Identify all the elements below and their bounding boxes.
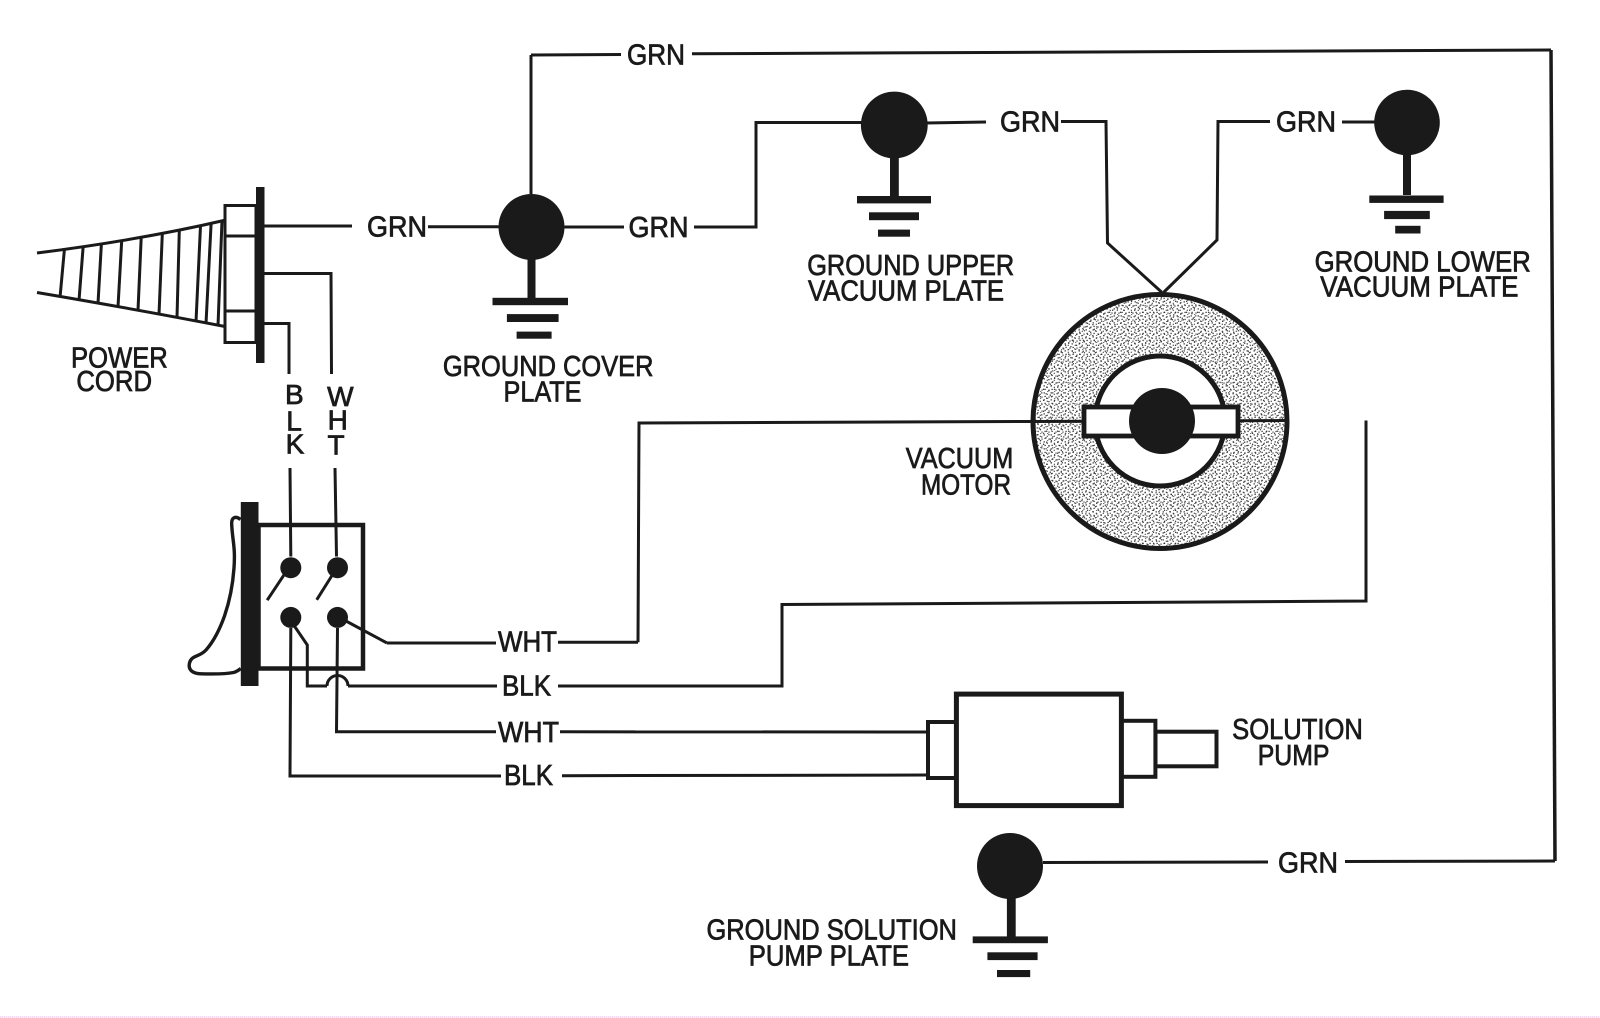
switch contact dot top-right <box>327 557 348 578</box>
svg-text:WHT: WHT <box>498 626 557 658</box>
wire WHT cord to switch <box>265 274 337 557</box>
power cord plate bar <box>256 187 265 363</box>
wire GRN cover plate to upper plate <box>565 123 863 228</box>
wire WHT switch to pump <box>337 628 929 732</box>
svg-text:GRN: GRN <box>1000 106 1060 138</box>
svg-text:GRN: GRN <box>367 211 427 243</box>
wire BLK switch to motor <box>293 421 1366 687</box>
svg-text:PLATE: PLATE <box>504 376 582 408</box>
svg-text:WHT: WHT <box>498 717 559 749</box>
svg-text:VACUUM PLATE: VACUUM PLATE <box>808 276 1004 308</box>
ground solution pump plate node <box>977 833 1043 899</box>
svg-text:VACUUM PLATE: VACUUM PLATE <box>1320 272 1518 304</box>
svg-text:CORD: CORD <box>76 366 152 398</box>
svg-text:GRN: GRN <box>629 212 689 244</box>
switch lever left <box>267 574 284 600</box>
svg-text:GRN: GRN <box>1276 107 1336 139</box>
wire GRN cord to cover plate <box>265 225 499 229</box>
svg-text:MOTOR: MOTOR <box>921 469 1011 501</box>
wire GRN pump plate to right border <box>1043 861 1555 863</box>
wire WHT switch to motor <box>345 422 1032 644</box>
power cord connector <box>225 206 256 343</box>
switch box <box>259 525 364 669</box>
svg-text:GRN: GRN <box>1278 847 1338 879</box>
svg-text:BLK: BLK <box>504 760 554 792</box>
wire cover plate up <box>530 55 533 194</box>
switch mounting bar <box>241 502 259 686</box>
wire GRN lower plate to motor <box>1164 122 1376 293</box>
wire BLK cord to switch <box>265 324 291 557</box>
switch lever curve <box>189 517 241 674</box>
svg-text:PUMP PLATE: PUMP PLATE <box>749 940 909 972</box>
svg-text:GRN: GRN <box>627 39 685 71</box>
svg-text:PUMP: PUMP <box>1258 740 1330 772</box>
svg-text:BLK: BLK <box>502 671 552 703</box>
vacuum motor <box>1032 295 1288 549</box>
ground symbol upper plate <box>857 157 931 237</box>
switch contact dot bottom-left <box>280 607 301 628</box>
ground symbol lower plate <box>1369 153 1443 234</box>
svg-text:T: T <box>328 429 345 460</box>
solution pump body <box>928 694 1217 806</box>
svg-text:K: K <box>286 429 305 460</box>
ground symbol pump plate <box>973 897 1048 977</box>
wire GRN upper plate to motor <box>926 122 1162 293</box>
wire right border <box>1551 50 1555 861</box>
switch lever right <box>317 576 332 600</box>
wire BLK switch to pump <box>290 628 928 776</box>
switch contact dot top-left <box>280 557 301 578</box>
ground upper vacuum plate node <box>861 92 928 159</box>
ground cover plate node <box>499 194 565 260</box>
ground lower vacuum plate node <box>1374 90 1440 156</box>
power cord <box>37 220 226 327</box>
switch contact dot bottom-right <box>327 607 348 628</box>
wire GRN top run <box>531 50 1551 55</box>
ground symbol cover plate <box>493 258 569 339</box>
